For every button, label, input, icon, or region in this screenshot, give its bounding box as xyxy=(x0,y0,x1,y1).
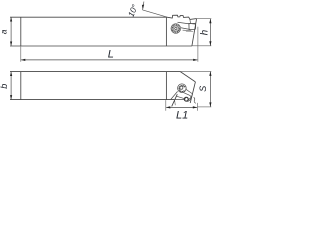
dimension L1 right extension line xyxy=(196,103,198,111)
bottom view head chamfer edge xyxy=(180,72,195,82)
dimension h line xyxy=(209,19,211,46)
dimension S top extension line xyxy=(180,70,211,72)
dimension L right arrow xyxy=(193,59,198,61)
dimension L right extension line xyxy=(197,27,199,62)
top view clamp arm lower line xyxy=(181,28,190,30)
dimension a bottom arrow xyxy=(10,42,12,47)
dimension b bottom arrow xyxy=(10,95,12,100)
insert bottom face front edge xyxy=(176,96,185,99)
top view shank outline xyxy=(10,17,192,46)
insert tip converging edge xyxy=(189,94,193,100)
svg-text:h: h xyxy=(200,30,211,35)
insert tip wrap outline xyxy=(187,95,191,101)
top view clamp arm upper line xyxy=(178,22,190,24)
dimension L left arrow xyxy=(21,59,26,61)
10 deg angle arrowhead xyxy=(142,5,144,10)
bottom view head/shank boundary line xyxy=(165,72,167,100)
dimension L1 line xyxy=(166,106,197,108)
top view clamp screw bevel ring xyxy=(172,25,179,32)
top view insert sliver under clamp xyxy=(183,29,192,31)
dimension h / bottom edge thin extension xyxy=(192,45,211,47)
dimension b line xyxy=(10,72,12,99)
bottom view head right edge (10 deg lean) xyxy=(190,82,195,103)
insert screw circle (bottom view) xyxy=(178,84,187,93)
top view head top outline with clamp bumps xyxy=(167,15,197,19)
svg-text:S: S xyxy=(198,86,208,92)
dimension L1 left extension line xyxy=(165,100,167,111)
top view clamp front quad xyxy=(190,19,196,23)
insert pocket lower-left edge xyxy=(171,91,178,99)
svg-text:a: a xyxy=(0,29,8,34)
insert top-right double edge xyxy=(184,93,190,96)
insert screw inner hole xyxy=(180,86,183,89)
top view head/shank boundary line xyxy=(165,17,167,46)
dimension h top extension line xyxy=(197,18,211,20)
insert lower-left edge below shank xyxy=(172,94,178,106)
top view clamp nose block xyxy=(189,23,196,29)
insert lower-left inner line xyxy=(174,100,177,105)
bottom view shank outline xyxy=(10,72,180,100)
top view screw torx hole xyxy=(175,27,177,29)
dimension a top arrow xyxy=(10,17,12,22)
top view clamp screw inner circle xyxy=(173,26,178,31)
dimension L line xyxy=(21,59,197,61)
dimension S top arrow xyxy=(209,71,211,76)
svg-text:L1: L1 xyxy=(176,110,188,122)
insert bottom edge to tip xyxy=(174,99,184,101)
dimension h bottom arrow xyxy=(209,41,211,46)
dimension h top arrow xyxy=(209,19,211,24)
dimension S bottom extension line xyxy=(198,106,212,108)
insert screw C-ring xyxy=(179,86,185,92)
top view head slanted right edge (10 deg) xyxy=(192,19,197,46)
10 deg leader line to head corner xyxy=(143,10,167,17)
top view clamp screw outer circle xyxy=(171,24,181,34)
10 deg angle steep boundary line xyxy=(143,2,144,10)
dimension L1 right arrow xyxy=(193,106,198,108)
dimension S line xyxy=(209,72,211,107)
svg-text:L: L xyxy=(108,49,114,61)
dimension L left extension line xyxy=(20,47,22,62)
dimension L1 left arrow xyxy=(166,106,171,108)
tip extension squiggle xyxy=(194,97,196,103)
dimension S bottom arrow xyxy=(209,102,211,107)
svg-text:b: b xyxy=(0,84,9,89)
insert tip corner circle xyxy=(184,97,188,101)
dimension b top arrow xyxy=(10,72,12,77)
svg-text:10°: 10° xyxy=(126,2,140,18)
dimension a extension overhangs are part of edges; dimension a line xyxy=(10,18,12,46)
